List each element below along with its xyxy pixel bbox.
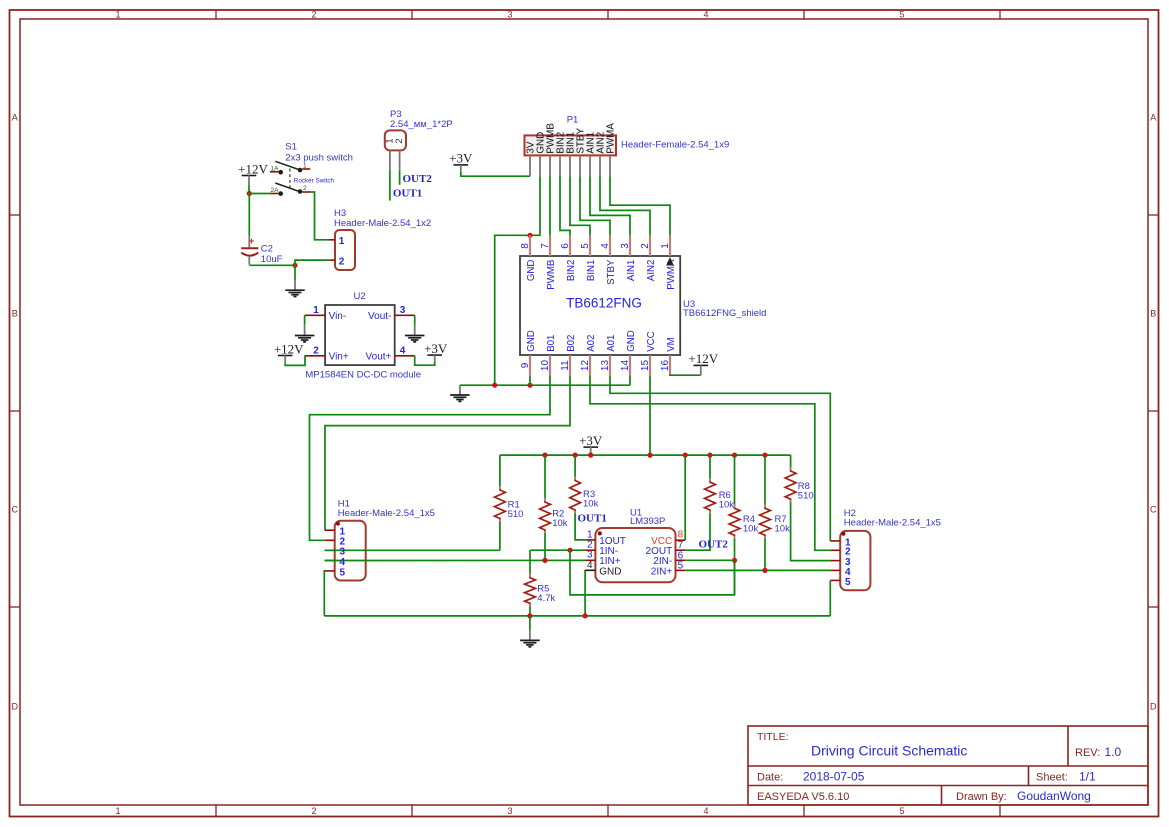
module U2 MP1584EN xyxy=(305,305,415,365)
svg-text:6: 6 xyxy=(560,243,571,249)
svg-text:4: 4 xyxy=(587,560,593,571)
svg-text:Drawn By:: Drawn By: xyxy=(956,791,1007,803)
svg-text:BIN2: BIN2 xyxy=(566,260,577,282)
ground (U3) xyxy=(450,385,470,401)
svg-text:OUT1: OUT1 xyxy=(393,187,422,199)
svg-text:Date:: Date: xyxy=(757,772,783,784)
wire R6 bottom to U1.7 xyxy=(685,514,710,551)
svg-text:13: 13 xyxy=(600,360,611,372)
svg-text:P1: P1 xyxy=(567,115,579,126)
svg-text:GoudanWong: GoudanWong xyxy=(1017,789,1091,803)
wire H2.5 to GND rail xyxy=(829,580,831,616)
connector H2 xyxy=(830,531,870,590)
svg-text:1/1: 1/1 xyxy=(1079,770,1096,784)
svg-text:1: 1 xyxy=(660,243,671,249)
svg-text:Rocker Switch: Rocker Switch xyxy=(294,177,335,184)
svg-text:4: 4 xyxy=(600,243,611,249)
svg-text:4: 4 xyxy=(340,557,346,568)
svg-text:PWMA: PWMA xyxy=(606,123,617,154)
svg-text:Vout+: Vout+ xyxy=(366,352,392,363)
wire +12V flag to U2.2 xyxy=(285,356,305,366)
wire R3 top lead xyxy=(574,455,576,477)
svg-text:4.7k: 4.7k xyxy=(537,593,555,604)
svg-text:3: 3 xyxy=(400,305,406,316)
svg-text:4: 4 xyxy=(703,10,708,20)
svg-text:4: 4 xyxy=(703,806,708,816)
wire U3.16 VM to +12V xyxy=(670,374,701,377)
wire B02 U3.11 to H1.1 xyxy=(325,376,570,530)
svg-text:5: 5 xyxy=(340,567,346,578)
svg-text:B01: B01 xyxy=(546,335,557,352)
svg-text:PWMB: PWMB xyxy=(546,260,557,290)
svg-text:2: 2 xyxy=(394,138,405,143)
wire AIN2 P1.8 to U3.2 xyxy=(600,176,650,235)
wire A01 U3.13 to H2.1 xyxy=(610,376,830,541)
title block frame xyxy=(748,726,1148,805)
svg-text:8: 8 xyxy=(520,243,531,249)
svg-text:9: 9 xyxy=(520,362,531,368)
svg-text:15: 15 xyxy=(640,360,651,372)
power flag +12V (VM) xyxy=(688,351,718,375)
wire S1 pin2 to H3 pin1 xyxy=(310,192,328,240)
svg-text:+: + xyxy=(249,236,255,247)
power flag +12V (switch) xyxy=(238,161,268,185)
wire +3V flag tail xyxy=(590,452,592,455)
svg-text:A01: A01 xyxy=(606,335,617,352)
svg-text:AIN1: AIN1 xyxy=(626,260,637,282)
svg-text:7: 7 xyxy=(540,243,551,249)
wire A02 U3.12 to H2.2 xyxy=(590,376,830,550)
svg-text:3: 3 xyxy=(620,243,631,249)
power flag +12V (U2 Vin+) xyxy=(274,341,304,364)
svg-text:AIN2: AIN2 xyxy=(646,260,657,282)
ground (U2 Vout-) xyxy=(405,324,425,342)
svg-text:5: 5 xyxy=(899,806,904,816)
svg-text:10k: 10k xyxy=(775,524,791,535)
svg-text:Vin-: Vin- xyxy=(329,311,347,322)
junction rail R7 xyxy=(762,453,767,458)
wire U2.1 to ground xyxy=(304,315,306,324)
svg-text:+3V: +3V xyxy=(424,341,448,356)
svg-text:1.0: 1.0 xyxy=(1105,745,1122,759)
svg-text:TITLE:: TITLE: xyxy=(757,731,789,743)
svg-text:2018-07-05: 2018-07-05 xyxy=(803,770,865,784)
connector H1 xyxy=(325,521,366,581)
svg-text:2: 2 xyxy=(339,256,345,267)
wire R6 top lead xyxy=(709,455,711,479)
wire B01 U3.10 to H1.2 xyxy=(310,376,551,540)
ground (bottom) xyxy=(520,630,540,647)
resistor R3 xyxy=(570,477,599,515)
wire H1.4 to U1.3 (1IN+) xyxy=(325,559,586,561)
junction rail R4 xyxy=(732,453,737,458)
resistor R2 xyxy=(540,498,568,534)
wire VCC U3.15 to +3V rail xyxy=(649,376,651,455)
junction rail R2 xyxy=(542,453,547,458)
svg-text:VM: VM xyxy=(666,337,677,352)
junction U3 pin8 top xyxy=(527,233,532,238)
wire U1.8 VCC from rail xyxy=(684,455,686,540)
svg-text:1: 1 xyxy=(313,305,319,316)
junction rail U3 VCC xyxy=(647,453,652,458)
power flag +3V (U2 Vout+) xyxy=(424,341,448,362)
svg-text:5: 5 xyxy=(899,10,904,20)
svg-text:2: 2 xyxy=(640,243,651,249)
switch S1 xyxy=(270,161,335,196)
svg-text:+12V: +12V xyxy=(274,341,304,356)
svg-text:D: D xyxy=(11,701,18,711)
svg-text:Driving Circuit Schematic: Driving Circuit Schematic xyxy=(811,743,967,759)
svg-text:10k: 10k xyxy=(552,518,568,529)
svg-text:2IN+: 2IN+ xyxy=(651,566,673,577)
resistor R7 xyxy=(760,504,790,539)
wire +3V flag to P1 pin1 xyxy=(461,172,530,176)
wire U1.6 2IN- xyxy=(685,559,734,561)
svg-text:C: C xyxy=(1150,504,1157,514)
svg-text:S1: S1 xyxy=(285,142,297,153)
wire STBY P1.6 to U3.4 xyxy=(580,176,610,235)
svg-text:A: A xyxy=(12,112,18,122)
resistor R4 xyxy=(729,504,758,539)
op-amp U1 LM393P xyxy=(585,528,686,582)
power flag +3V (P1) xyxy=(449,151,473,173)
svg-text:OUT2: OUT2 xyxy=(403,173,433,185)
svg-text:2: 2 xyxy=(311,10,316,20)
svg-text:LM393P: LM393P xyxy=(630,516,665,527)
svg-text:A: A xyxy=(1150,112,1156,122)
junction R5/GND rail xyxy=(527,613,532,618)
svg-text:3: 3 xyxy=(507,10,512,20)
svg-text:A02: A02 xyxy=(586,335,597,352)
svg-text:+3V: +3V xyxy=(579,433,603,448)
junction R7/2IN+ xyxy=(762,568,767,573)
svg-text:2: 2 xyxy=(303,185,307,192)
svg-text:Header-Male-2.54_1x5: Header-Male-2.54_1x5 xyxy=(844,518,941,529)
svg-text:1A: 1A xyxy=(271,165,280,172)
wire bottom GND rail xyxy=(324,615,830,617)
svg-text:2: 2 xyxy=(311,806,316,816)
wire junction up to H3 pin2 xyxy=(295,260,328,265)
wire U3.9 to GND rail xyxy=(529,376,531,385)
svg-text:GND: GND xyxy=(526,260,537,282)
wire R8 top lead xyxy=(790,455,792,467)
junction +12V/C2/S1 xyxy=(247,191,252,196)
junction rail R3 xyxy=(573,453,578,458)
connector P1 xyxy=(525,123,617,177)
wire U3.14 to GND rail xyxy=(629,376,631,385)
junction GND rail U3.9 xyxy=(527,383,532,388)
svg-text:2.54_мм_1*2P: 2.54_мм_1*2P xyxy=(390,119,453,130)
svg-text:14: 14 xyxy=(620,360,631,372)
svg-text:5: 5 xyxy=(678,561,684,572)
svg-text:Sheet:: Sheet: xyxy=(1036,772,1068,784)
wire BIN1 P1.5 to U3.5 xyxy=(570,176,590,235)
svg-text:C2: C2 xyxy=(261,244,273,255)
wire R5 bottom lead xyxy=(529,607,531,616)
wire R4 top lead xyxy=(734,455,736,505)
svg-text:GND: GND xyxy=(526,330,537,352)
connector P3 xyxy=(384,130,406,170)
wire R1 bottom lead xyxy=(499,522,501,550)
wire C2 to ground junction xyxy=(249,264,295,266)
resistor R6 xyxy=(705,478,735,514)
svg-text:+12V: +12V xyxy=(238,161,268,176)
svg-text:3: 3 xyxy=(507,806,512,816)
wire P3 pin2 (OUT2) xyxy=(399,170,401,185)
svg-text:Header-Male-2.54_1x2: Header-Male-2.54_1x2 xyxy=(334,218,431,229)
svg-text:B02: B02 xyxy=(566,335,577,352)
junction 1IN- loop xyxy=(567,548,572,553)
svg-text:B: B xyxy=(1150,308,1156,318)
wire R2 bottom lead xyxy=(544,534,546,561)
wire +12V to S1 pin2A xyxy=(249,193,270,195)
svg-text:Vout-: Vout- xyxy=(368,311,391,322)
svg-text:C: C xyxy=(11,504,18,514)
wire R5 top lead xyxy=(529,550,531,574)
svg-text:11: 11 xyxy=(560,360,571,371)
resistor R1 xyxy=(495,486,524,523)
svg-text:GND: GND xyxy=(626,330,637,352)
connector H3 xyxy=(328,230,355,270)
svg-text:Header-Female-2.54_1x9: Header-Female-2.54_1x9 xyxy=(621,139,729,150)
wire +3V rail xyxy=(500,454,791,456)
junction rail +3V flag xyxy=(588,453,593,458)
junction U1 GND rail xyxy=(583,613,588,618)
svg-text:10k: 10k xyxy=(583,499,599,510)
svg-text:1: 1 xyxy=(115,10,120,20)
svg-text:1: 1 xyxy=(115,806,120,816)
svg-text:REV:: REV: xyxy=(1075,747,1100,759)
wire R5 below junction xyxy=(529,616,531,631)
svg-text:2: 2 xyxy=(313,346,319,357)
wire H1.3 to R1 xyxy=(325,549,500,551)
power flag +3V (rail) xyxy=(579,433,603,453)
svg-text:10: 10 xyxy=(540,360,551,372)
svg-text:OUT1: OUT1 xyxy=(578,512,607,524)
svg-text:5: 5 xyxy=(845,577,851,588)
connector H1 pin numbers xyxy=(340,527,346,579)
ground (U2 Vin-) xyxy=(295,324,315,342)
junction rail U1 VCC xyxy=(683,453,688,458)
resistor R8 xyxy=(785,467,813,503)
ground (C2) xyxy=(285,279,305,296)
svg-text:TB6612FNG: TB6612FNG xyxy=(566,295,642,310)
wire AIN1 P1.7 to U3.3 xyxy=(590,176,630,235)
wire U1.5 2IN+ to H2.4 xyxy=(685,569,830,571)
svg-text:BIN1: BIN1 xyxy=(586,260,597,282)
wire 1IN- segment xyxy=(530,549,585,551)
svg-text:EASYEDA V5.6.10: EASYEDA V5.6.10 xyxy=(757,791,849,803)
svg-text:Header-Male-2.54_1x5: Header-Male-2.54_1x5 xyxy=(338,508,435,519)
resistor R5 xyxy=(525,574,556,608)
svg-text:Vin+: Vin+ xyxy=(329,352,349,363)
svg-text:GND: GND xyxy=(599,566,621,577)
svg-text:B: B xyxy=(12,308,18,318)
wire GND P1.2 to U3.8 and down xyxy=(495,176,540,385)
wire loop 1IN- to 2IN- xyxy=(570,550,735,595)
wire PWMA P1.9 to U3.1 xyxy=(610,176,670,235)
junction rail R6 xyxy=(707,453,712,458)
svg-text:STBY: STBY xyxy=(606,259,617,285)
svg-text:10k: 10k xyxy=(719,500,735,511)
svg-text:+12V: +12V xyxy=(688,351,718,366)
wire R3 bottom to U1.1 xyxy=(575,514,585,540)
svg-text:D: D xyxy=(1150,701,1157,711)
wire R4 bottom lead xyxy=(734,539,736,595)
wire P3 pin1 (OUT1) xyxy=(389,170,391,200)
junction GND rail left xyxy=(492,383,497,388)
svg-text:10k: 10k xyxy=(743,524,759,535)
wire +12V junction down to C2 xyxy=(248,193,250,236)
svg-text:16: 16 xyxy=(660,360,671,372)
wire R2 top lead xyxy=(544,455,546,498)
svg-text:OUT2: OUT2 xyxy=(699,539,729,551)
svg-text:U2: U2 xyxy=(354,291,366,302)
wire R7 top lead xyxy=(764,455,766,505)
svg-text:4: 4 xyxy=(400,346,406,357)
junction R2/1IN+ xyxy=(542,558,547,563)
IC U3 TB6612FNG xyxy=(520,235,680,376)
svg-text:8: 8 xyxy=(678,530,684,541)
wire R7 bottom lead xyxy=(764,539,766,571)
svg-text:510: 510 xyxy=(798,491,814,502)
wire +12V flag tail xyxy=(248,186,250,194)
wire U2.3 to ground xyxy=(414,315,416,324)
wire R8 bottom to H2.3 xyxy=(791,503,831,561)
svg-text:2x3 push switch: 2x3 push switch xyxy=(285,152,353,163)
wire BIN2 P1.4 to U3.6 xyxy=(560,176,570,235)
svg-text:TB6612FNG_shield: TB6612FNG_shield xyxy=(683,308,766,319)
svg-text:2A: 2A xyxy=(271,187,280,194)
wire U1.4 GND down xyxy=(584,570,586,616)
svg-text:5: 5 xyxy=(580,243,591,249)
wire R1 top lead xyxy=(499,455,501,486)
svg-text:VCC: VCC xyxy=(646,331,657,351)
wire H1.5 to GND rail xyxy=(323,571,326,616)
wire PWMB P1.3 to U3.7 xyxy=(549,176,551,235)
svg-text:1: 1 xyxy=(339,236,345,247)
svg-text:510: 510 xyxy=(508,509,524,520)
wire U2.4 to +3V flag xyxy=(415,356,435,365)
junction R4/2IN- xyxy=(732,558,737,563)
wire junction down to ground xyxy=(294,265,296,279)
svg-text:MP1584EN DC-DC module: MP1584EN DC-DC module xyxy=(305,370,421,381)
svg-text:10uF: 10uF xyxy=(261,254,283,265)
svg-text:+3V: +3V xyxy=(449,151,473,166)
capacitor C2 xyxy=(241,235,258,265)
svg-text:12: 12 xyxy=(580,360,591,372)
junction C2/H3/ground xyxy=(292,263,297,268)
wire GND rail under U3 xyxy=(460,384,630,386)
